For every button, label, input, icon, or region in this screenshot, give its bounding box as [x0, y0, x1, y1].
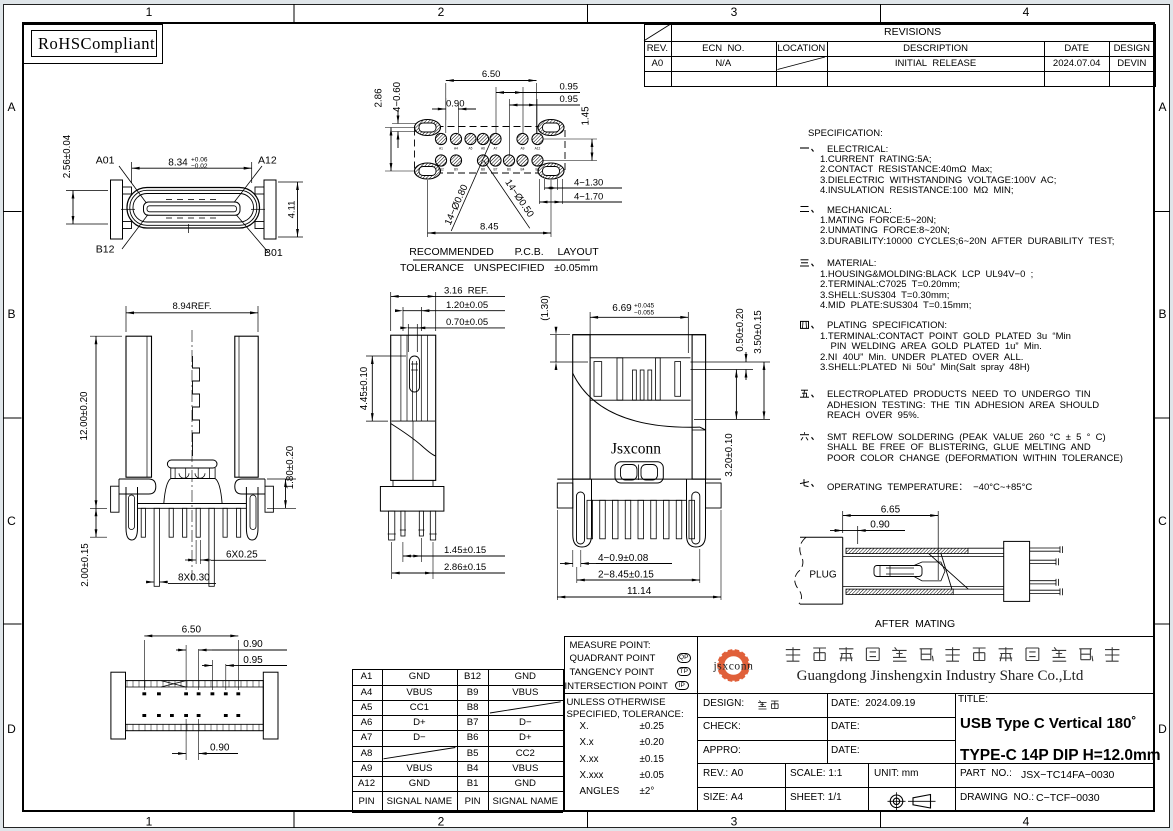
svg-text:B: B [7, 307, 15, 321]
svg-text:jsxconn: jsxconn [713, 661, 754, 673]
svg-text:4−1.70: 4−1.70 [574, 192, 603, 203]
svg-text:8.34: 8.34 [168, 158, 188, 169]
svg-text:−0.055: −0.055 [634, 310, 654, 317]
svg-text:3.20±0.10: 3.20±0.10 [724, 433, 735, 477]
svg-text:0.90: 0.90 [870, 520, 890, 531]
svg-text:PLUG: PLUG [809, 570, 836, 581]
svg-text:2.00±0.15: 2.00±0.15 [80, 543, 91, 587]
svg-text:0.90: 0.90 [446, 99, 465, 110]
svg-text:14−Ø0.50: 14−Ø0.50 [502, 178, 536, 221]
svg-text:A6: A6 [481, 147, 485, 151]
svg-text:A: A [1158, 100, 1166, 114]
svg-text:D: D [1158, 722, 1167, 736]
svg-text:4−0.9±0.08: 4−0.9±0.08 [598, 553, 649, 564]
svg-text:2.86: 2.86 [374, 88, 385, 108]
svg-text:0.90: 0.90 [243, 639, 263, 650]
svg-text:1.45±0.15: 1.45±0.15 [444, 545, 486, 556]
svg-text:14−Ø0.80: 14−Ø0.80 [443, 182, 471, 227]
svg-text:1: 1 [146, 815, 153, 829]
svg-text:A4: A4 [454, 147, 458, 151]
svg-text:4−0.60: 4−0.60 [392, 81, 403, 112]
svg-text:1: 1 [146, 5, 153, 19]
svg-text:0.95: 0.95 [560, 82, 579, 93]
svg-text:C: C [7, 514, 16, 528]
svg-text:1.80±0.20: 1.80±0.20 [285, 445, 296, 489]
svg-text:A: A [7, 100, 15, 114]
svg-text:B8: B8 [481, 168, 485, 172]
svg-text:2: 2 [438, 5, 445, 19]
svg-text:+0.045: +0.045 [634, 303, 654, 310]
svg-text:6.69: 6.69 [612, 303, 632, 314]
svg-text:A9: A9 [521, 147, 525, 151]
svg-text:B7: B7 [494, 168, 498, 172]
svg-text:0.90: 0.90 [210, 743, 230, 754]
svg-text:3.16 REF.: 3.16 REF. [444, 286, 488, 297]
svg-text:A12: A12 [258, 155, 277, 167]
svg-text:6.65: 6.65 [881, 505, 901, 516]
svg-text:0.95: 0.95 [560, 94, 579, 105]
svg-text:1.20±0.05: 1.20±0.05 [446, 300, 488, 311]
svg-text:0.95: 0.95 [243, 655, 263, 666]
svg-text:12.00±0.20: 12.00±0.20 [79, 391, 90, 441]
svg-text:1.45: 1.45 [581, 106, 592, 126]
svg-text:4−1.30: 4−1.30 [574, 178, 603, 189]
svg-text:11.14: 11.14 [627, 586, 652, 597]
svg-text:4.11: 4.11 [287, 201, 298, 219]
svg-text:2.56±0.04: 2.56±0.04 [62, 134, 73, 178]
svg-text:0.50±0.20: 0.50±0.20 [735, 308, 746, 352]
svg-text:4.45±0.10: 4.45±0.10 [359, 366, 370, 410]
svg-text:3: 3 [731, 5, 738, 19]
svg-text:B12: B12 [438, 168, 444, 172]
svg-text:A1: A1 [439, 147, 443, 151]
svg-text:8.94REF.: 8.94REF. [172, 301, 211, 312]
svg-text:3: 3 [731, 815, 738, 829]
svg-text:B6: B6 [507, 168, 511, 172]
svg-text:A12: A12 [535, 147, 541, 151]
svg-text:6X0.25: 6X0.25 [226, 550, 258, 561]
svg-text:0.70±0.05: 0.70±0.05 [446, 317, 488, 328]
svg-text:4: 4 [1023, 5, 1030, 19]
svg-text:B01: B01 [264, 247, 283, 259]
svg-text:8.45: 8.45 [480, 222, 499, 233]
svg-text:4: 4 [1023, 815, 1030, 829]
svg-text:6.50: 6.50 [482, 69, 501, 80]
svg-text:8X0.30: 8X0.30 [178, 573, 210, 584]
svg-text:3.50±0.15: 3.50±0.15 [753, 310, 764, 354]
svg-text:6.50: 6.50 [182, 625, 202, 636]
svg-text:B12: B12 [96, 244, 115, 256]
svg-text:−0.02: −0.02 [191, 163, 208, 170]
svg-text:B: B [1158, 307, 1166, 321]
svg-text:B9: B9 [454, 168, 458, 172]
svg-text:C: C [1158, 514, 1167, 528]
svg-text:D: D [7, 722, 16, 736]
svg-text:B4: B4 [521, 168, 525, 172]
svg-text:A5: A5 [469, 147, 473, 151]
svg-text:B1: B1 [536, 168, 540, 172]
svg-text:Jsxconn: Jsxconn [611, 441, 661, 458]
svg-text:A01: A01 [96, 155, 115, 167]
svg-text:AFTER MATING: AFTER MATING [875, 618, 955, 630]
svg-text:2: 2 [438, 815, 445, 829]
svg-text:2.86±0.15: 2.86±0.15 [444, 562, 486, 573]
svg-text:(1.30): (1.30) [540, 295, 551, 321]
svg-text:2−8.45±0.15: 2−8.45±0.15 [598, 570, 654, 581]
svg-text:A7: A7 [494, 147, 498, 151]
